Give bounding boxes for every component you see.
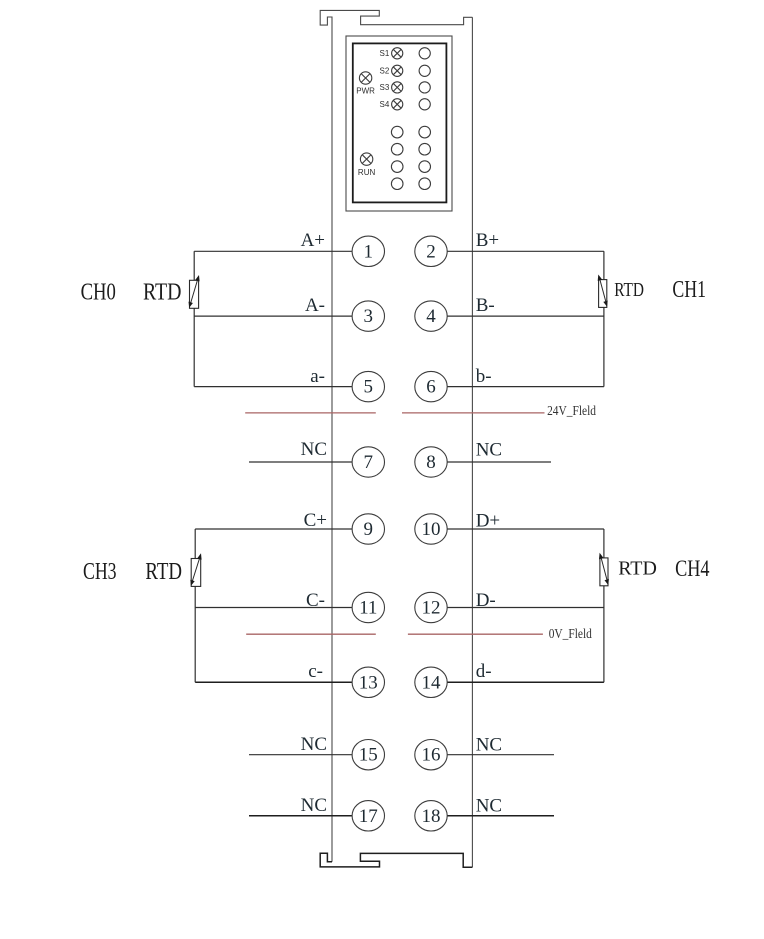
wire NC pin 18 xyxy=(447,815,554,817)
wire pin 10 to D+ xyxy=(447,528,604,530)
LED S1 xyxy=(380,48,403,59)
LED RUN xyxy=(358,153,376,177)
svg-text:11: 11 xyxy=(359,598,377,619)
svg-text:15: 15 xyxy=(359,745,378,766)
wire C- to pin 11 xyxy=(195,607,352,609)
svg-text:B-: B- xyxy=(476,295,495,316)
RTD sensor CH3 xyxy=(190,553,201,586)
terminal pin 1 xyxy=(352,236,384,266)
terminal pin 7 xyxy=(352,447,384,477)
svg-text:a-: a- xyxy=(310,366,325,387)
svg-text:1: 1 xyxy=(364,241,374,262)
svg-text:C-: C- xyxy=(306,590,325,611)
LED indicator upper right 3 xyxy=(419,82,430,93)
svg-text:RTD: RTD xyxy=(143,278,182,305)
svg-text:PWR: PWR xyxy=(356,87,375,96)
svg-text:8: 8 xyxy=(426,452,436,473)
terminal pin 9 xyxy=(352,514,384,544)
wire pin 2 to B+ xyxy=(447,250,604,252)
wire NC pin 8 xyxy=(447,461,551,463)
LED indicator upper right 2 xyxy=(419,65,430,76)
svg-text:S3: S3 xyxy=(380,83,390,92)
svg-text:18: 18 xyxy=(422,806,441,827)
front panel inner frame xyxy=(353,43,447,202)
svg-text:3: 3 xyxy=(364,306,374,327)
24V_Field rail left segment xyxy=(245,412,376,414)
svg-text:S1: S1 xyxy=(380,49,390,58)
wire pin 4 to B- xyxy=(447,315,604,317)
svg-text:c-: c- xyxy=(308,661,323,682)
svg-text:NC: NC xyxy=(301,439,327,460)
LED indicator upper right 4 xyxy=(419,99,430,110)
svg-text:NC: NC xyxy=(476,735,502,756)
svg-text:CH1: CH1 xyxy=(672,276,706,303)
svg-text:S4: S4 xyxy=(380,100,390,109)
terminal pin 2 xyxy=(415,236,447,266)
LED indicator lower right 1 xyxy=(419,126,431,138)
0V_Field rail right segment xyxy=(408,633,543,635)
terminal pin 11 xyxy=(352,592,384,622)
RTD sensor CH1 xyxy=(598,275,608,308)
svg-text:C+: C+ xyxy=(304,510,327,531)
LED S3 xyxy=(380,82,403,93)
svg-text:4: 4 xyxy=(426,306,436,327)
wire a- to pin 5 xyxy=(194,386,352,388)
svg-text:CH4: CH4 xyxy=(675,556,710,582)
wire CH3 vertical xyxy=(194,529,196,682)
svg-text:NC: NC xyxy=(301,734,327,755)
RTD sensor CH0 xyxy=(189,275,200,308)
LED indicator lower right 4 xyxy=(419,178,431,190)
terminal pin 4 xyxy=(415,301,447,331)
wire c- to pin 13 xyxy=(195,681,352,683)
wire pin 14 to d- xyxy=(447,681,604,683)
RTD sensor CH4 xyxy=(599,553,609,586)
svg-text:7: 7 xyxy=(364,452,374,473)
svg-text:B+: B+ xyxy=(476,230,499,251)
svg-text:0V_Fleld: 0V_Fleld xyxy=(549,626,592,641)
LED indicator lower left 2 xyxy=(391,143,403,155)
svg-text:d-: d- xyxy=(476,661,492,682)
LED indicator lower right 3 xyxy=(419,161,431,173)
wire CH1 vertical xyxy=(603,251,605,386)
svg-text:RUN: RUN xyxy=(358,168,376,177)
LED indicator lower right 2 xyxy=(419,143,431,155)
terminal pin 18 xyxy=(415,801,447,831)
svg-text:D-: D- xyxy=(476,590,496,611)
wire A+ to pin 1 xyxy=(194,250,352,252)
svg-text:RTD: RTD xyxy=(618,558,657,580)
svg-text:6: 6 xyxy=(426,377,436,398)
svg-text:S2: S2 xyxy=(380,67,390,76)
front panel outer frame xyxy=(346,36,452,211)
terminal pin 16 xyxy=(415,740,447,770)
terminal pin 12 xyxy=(415,592,447,622)
LED indicator upper right 1 xyxy=(419,48,430,59)
svg-text:A-: A- xyxy=(305,295,325,316)
wire A- to pin 3 xyxy=(194,315,352,317)
terminal pin 15 xyxy=(352,740,384,770)
svg-text:CH3: CH3 xyxy=(83,558,117,585)
svg-text:RTD: RTD xyxy=(614,279,644,301)
terminal pin 10 xyxy=(415,514,447,544)
wire NC pin 16 xyxy=(447,754,554,756)
terminal pin 8 xyxy=(415,447,447,477)
LED indicator lower left 3 xyxy=(391,161,403,173)
wire pin 12 to D- xyxy=(447,607,604,609)
svg-text:NC: NC xyxy=(301,795,327,816)
terminal pin 6 xyxy=(415,371,447,401)
wire CH4 vertical xyxy=(603,529,605,682)
LED PWR xyxy=(356,72,375,96)
svg-text:A+: A+ xyxy=(301,230,325,251)
LED indicator lower left 4 xyxy=(391,178,403,190)
LED indicator lower left 1 xyxy=(391,126,403,138)
LED S4 xyxy=(380,99,403,110)
module left rail xyxy=(331,17,333,862)
wire CH0 vertical xyxy=(193,251,195,386)
svg-text:5: 5 xyxy=(364,377,374,398)
wire C+ to pin 9 xyxy=(195,528,352,530)
svg-text:b-: b- xyxy=(476,366,492,387)
terminal pin 17 xyxy=(352,801,384,831)
terminal pin 14 xyxy=(415,667,447,697)
terminal pin 13 xyxy=(352,667,384,697)
svg-text:13: 13 xyxy=(359,672,378,693)
terminal pin 5 xyxy=(352,371,384,401)
0V_Field rail left segment xyxy=(246,633,376,635)
module top outline xyxy=(320,10,472,25)
wire pin 6 to b- xyxy=(447,386,604,388)
svg-text:CH0: CH0 xyxy=(81,279,116,306)
wire NC pin 7 xyxy=(249,461,352,463)
svg-text:24V_Fleld: 24V_Fleld xyxy=(547,403,596,418)
svg-text:NC: NC xyxy=(476,796,502,817)
svg-text:NC: NC xyxy=(476,440,502,461)
terminal pin 3 xyxy=(352,301,384,331)
svg-text:12: 12 xyxy=(422,598,441,619)
svg-text:10: 10 xyxy=(422,519,441,540)
module right rail xyxy=(471,17,473,867)
LED S2 xyxy=(380,65,403,76)
svg-text:14: 14 xyxy=(422,672,442,693)
module bottom outline xyxy=(320,853,472,867)
svg-text:2: 2 xyxy=(426,241,436,262)
wire NC pin 17 xyxy=(249,815,352,817)
svg-text:RTD: RTD xyxy=(145,558,182,585)
svg-text:16: 16 xyxy=(422,745,441,766)
24V_Field rail right segment xyxy=(402,412,545,414)
svg-text:9: 9 xyxy=(364,519,374,540)
svg-text:17: 17 xyxy=(359,806,378,827)
wire NC pin 15 xyxy=(249,754,352,756)
svg-text:D+: D+ xyxy=(476,510,500,531)
